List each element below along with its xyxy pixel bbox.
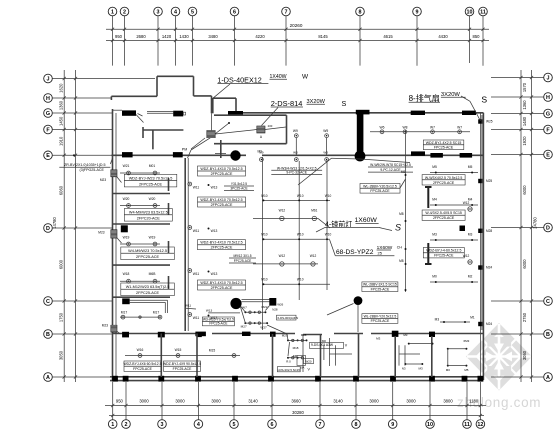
svg-text:2FPC20-ACE: 2FPC20-ACE [137, 217, 160, 221]
annotation 6-DS small [277, 315, 299, 320]
svg-text:W13: W13 [206, 309, 213, 313]
svg-text:W-W9/2W-W78 SC15+X2.5: W-W9/2W-W78 SC15+X2.5 [370, 163, 411, 167]
svg-text:11: 11 [480, 9, 486, 15]
svg-text:2FPC25-ACE: 2FPC25-ACE [139, 182, 162, 186]
svg-text:H: H [546, 95, 550, 101]
svg-text:7: 7 [285, 9, 288, 15]
thick black column wall [355, 113, 366, 162]
svg-text:2750: 2750 [522, 312, 527, 322]
left hall black dot lower [230, 298, 241, 309]
svg-text:M2: M2 [468, 275, 473, 279]
right wall outside wire [481, 115, 483, 330]
svg-text:J: J [47, 76, 50, 82]
svg-text:M24: M24 [486, 266, 492, 270]
top wall lamp bars [122, 110, 476, 117]
svg-text:10: 10 [427, 422, 433, 428]
watermark text zhulong.com [457, 395, 541, 410]
svg-text:D: D [546, 225, 550, 231]
svg-text:11: 11 [464, 422, 470, 428]
svg-text:2FPC25-ACE: 2FPC25-ACE [433, 181, 455, 185]
svg-text:24780: 24780 [533, 217, 538, 229]
corridor north wall [111, 154, 483, 156]
svg-text:M0: M0 [293, 354, 297, 358]
svg-text:M3: M3 [419, 367, 423, 371]
svg-text:6-DS-003(A)4W: 6-DS-003(A)4W [278, 316, 299, 320]
svg-text:N28: N28 [272, 307, 278, 311]
svg-text:W20: W20 [306, 359, 312, 363]
svg-text:W12: W12 [463, 201, 470, 205]
bottom grid bubbles 1-12 [108, 420, 484, 429]
svg-text:W13: W13 [211, 186, 218, 190]
top grid bubbles 1-11 [108, 7, 487, 16]
left room boxed labels [121, 174, 177, 295]
svg-text:4: 4 [174, 9, 177, 15]
svg-text:9: 9 [391, 422, 394, 428]
labels near right wall bottom [435, 316, 475, 324]
svg-text:WDZ-BYJ-4X10 70.5x12.5: WDZ-BYJ-4X10 70.5x12.5 [200, 198, 242, 202]
svg-text:3050: 3050 [522, 350, 527, 360]
left outside label [59, 158, 112, 172]
left grid bubbles J-A [44, 74, 53, 381]
hall node row 1 [261, 194, 331, 202]
hall lamp row W12 lower [253, 254, 318, 266]
hall node row 3 [261, 278, 330, 286]
svg-text:FPC25-ACE: FPC25-ACE [173, 367, 192, 371]
svg-text:W10: W10 [325, 194, 332, 198]
svg-text:E: E [546, 152, 550, 158]
small label M9-12 3X1.5 [229, 254, 256, 263]
svg-text:B: B [46, 332, 50, 338]
svg-text:M01: M01 [149, 164, 156, 168]
svg-text:W7: W7 [430, 126, 435, 130]
svg-text:W3: W3 [323, 150, 328, 154]
right grid lines [491, 78, 544, 378]
svg-text:1X60W: 1X60W [355, 217, 378, 224]
svg-text:M10: M10 [261, 233, 267, 237]
svg-text:4430: 4430 [438, 34, 448, 39]
top dimension lines [106, 28, 489, 42]
annotation I-DS bottom small [277, 365, 304, 372]
svg-text:10: 10 [467, 9, 473, 15]
svg-text:R.0: R.0 [286, 359, 291, 363]
svg-text:3660: 3660 [291, 399, 301, 404]
svg-text:M5: M5 [432, 165, 437, 169]
ceiling lamps W12 right rooms [463, 201, 472, 264]
svg-text:3: 3 [161, 422, 164, 428]
svg-text:W19: W19 [149, 235, 156, 239]
bottom outer wall [110, 377, 483, 381]
svg-text:J: J [547, 75, 550, 81]
bottom-left boxed labels [123, 361, 201, 371]
svg-text:1360: 1360 [59, 100, 64, 110]
bottom rooms labels left wing [293, 342, 348, 371]
left outer wall [113, 109, 117, 380]
svg-text:3000: 3000 [369, 399, 379, 404]
svg-text:FPC25-ACE: FPC25-ACE [434, 145, 454, 149]
distribution box PM [182, 131, 215, 152]
svg-text:(3)FPG25-ACE: (3)FPG25-ACE [80, 168, 105, 172]
svg-text:950: 950 [115, 34, 123, 39]
svg-text:WDZ-BYJ-4X10 70.5x12.5: WDZ-BYJ-4X10 70.5x12.5 [200, 281, 242, 285]
svg-text:3140: 3140 [248, 399, 258, 404]
corridor boxed labels [198, 166, 246, 290]
svg-text:7: 7 [319, 422, 322, 428]
top main wall [113, 110, 484, 113]
svg-text:2FPC25-ACE: 2FPC25-ACE [136, 255, 159, 259]
annotation 8-exhaust-fan 3X20W [409, 92, 481, 121]
svg-text:M28: M28 [301, 333, 307, 337]
black square on partition 4 [122, 298, 167, 313]
svg-text:W10: W10 [325, 233, 332, 237]
svg-text:5: 5 [233, 422, 236, 428]
svg-text:H: H [46, 96, 50, 102]
svg-text:W27: W27 [260, 325, 267, 329]
svg-text:N3: N3 [402, 367, 406, 371]
svg-text:8: 8 [359, 9, 362, 15]
toilet stall partitions [330, 338, 421, 366]
bottom dim numbers [116, 399, 479, 416]
svg-text:3: 3 [157, 9, 160, 15]
svg-text:M18: M18 [293, 346, 299, 350]
black square right of dot [269, 298, 276, 306]
svg-text:1360: 1360 [522, 100, 527, 110]
svg-text:3000: 3000 [406, 399, 416, 404]
svg-text:W12: W12 [463, 254, 470, 258]
svg-text:FPC25-ACE: FPC25-ACE [209, 322, 228, 326]
svg-text:850: 850 [473, 34, 481, 39]
wire vertical x405 hall [405, 130, 407, 292]
svg-text:9-PC-12-ACE: 9-PC-12-ACE [380, 168, 401, 172]
svg-text:3000: 3000 [175, 399, 185, 404]
svg-text:W25: W25 [486, 120, 493, 124]
black square on partition 2 [121, 225, 128, 232]
svg-text:W7: W7 [457, 126, 462, 130]
right dim numbers [522, 82, 538, 360]
svg-text:I-DS-3X2.5 SC15: I-DS-3X2.5 SC15 [278, 368, 301, 372]
svg-text:M23: M23 [98, 231, 104, 235]
switch chains room rows [267, 325, 313, 364]
svg-text:8: 8 [355, 422, 358, 428]
svg-text:WL-28BV-3X1.5 SC15: WL-28BV-3X1.5 SC15 [363, 283, 397, 287]
svg-text:W10: W10 [297, 233, 304, 237]
right rooms wire rows [430, 165, 478, 283]
svg-text:W16: W16 [137, 348, 144, 352]
svg-text:ZR-BV(2X1.0)1035+1(D.5: ZR-BV(2X1.0)1035+1(D.5 [64, 163, 105, 167]
svg-text:9-PC-32-ACE: 9-PC-32-ACE [286, 171, 307, 175]
svg-text:A: A [546, 375, 550, 381]
wall box M23 upper [100, 170, 122, 183]
wire vertical x327 [326, 160, 328, 290]
svg-text:6: 6 [233, 9, 236, 15]
svg-text:950: 950 [116, 399, 124, 404]
svg-text:WDZ-BYJ-4X10 70.5x12.5: WDZ-BYJ-4X10 70.5x12.5 [200, 241, 242, 245]
svg-text:2FPC25-ACE: 2FPC25-ACE [211, 286, 233, 290]
M17 lamp row [120, 311, 162, 320]
svg-text:W-W3X4X2.5 70.5x12.5: W-W3X4X2.5 70.5x12.5 [425, 176, 463, 180]
watermark zhulong logo [466, 323, 532, 391]
svg-text:WDZ-BYJ-W23 70.5x12.5: WDZ-BYJ-W23 70.5x12.5 [129, 176, 173, 180]
lamp W9 W8 left of hall [259, 129, 328, 162]
svg-text:B: B [546, 332, 550, 338]
svg-text:3000: 3000 [139, 399, 149, 404]
svg-text:25: 25 [378, 251, 383, 256]
svg-text:M8: M8 [399, 212, 404, 216]
annotation 2-DS-814 3X20W [262, 99, 326, 126]
svg-text:CH: CH [397, 246, 403, 250]
mid wall lamp bars [122, 332, 250, 338]
wire corridor lamps W11 [188, 182, 218, 320]
svg-text:W8: W8 [403, 126, 408, 130]
right wall boxes M25 M28 M24 [478, 119, 493, 326]
svg-text:M28: M28 [486, 229, 492, 233]
svg-text:4220: 4220 [255, 34, 265, 39]
left room partitions [113, 194, 170, 298]
svg-text:W11: W11 [185, 304, 191, 308]
svg-text:200: 200 [268, 124, 273, 128]
switch label S hall [395, 223, 401, 233]
svg-text:2: 2 [123, 9, 126, 15]
svg-text:WDZ-BYJ-4X9 90.5x12.5: WDZ-BYJ-4X9 90.5x12.5 [163, 362, 201, 366]
label CH [397, 246, 403, 250]
corridor east wall [185, 158, 188, 331]
switch label S right [481, 94, 487, 104]
svg-text:M3: M3 [432, 233, 437, 237]
labels on hall riser wire [399, 170, 405, 263]
svg-text:WDZ-BYJ-4X2.5 SC15: WDZ-BYJ-4X2.5 SC15 [426, 141, 462, 145]
svg-text:M9/12 3X1.5: M9/12 3X1.5 [233, 254, 251, 258]
top grid stems [113, 16, 484, 66]
wire pair dot to square [242, 300, 270, 302]
hall top label W-W3-4 [271, 166, 322, 174]
svg-text:W26: W26 [277, 303, 283, 307]
svg-text:WDZ-BYJ-4-60.5x12.5: WDZ-BYJ-4-60.5x12.5 [426, 249, 461, 253]
svg-text:3480: 3480 [208, 34, 218, 39]
svg-text:G: G [546, 111, 550, 117]
svg-text:W13: W13 [211, 229, 218, 233]
right rooms boxed labels [422, 175, 465, 258]
svg-text:M23: M23 [100, 178, 106, 182]
svg-text:D: D [46, 226, 50, 232]
svg-text:5: 5 [191, 9, 194, 15]
wire A box to fan row [265, 127, 286, 130]
svg-text:M1: M1 [470, 316, 475, 320]
svg-text:68-DS-YPZ2: 68-DS-YPZ2 [336, 249, 374, 256]
svg-text:1: 1 [111, 9, 114, 15]
svg-text:C: C [546, 299, 550, 305]
right dimension lines [519, 70, 533, 382]
svg-text:M3: M3 [376, 337, 380, 341]
top overall dim 20260 [290, 23, 303, 28]
switch boxed label [202, 317, 234, 326]
svg-text:C: C [46, 299, 50, 305]
left dim numbers [52, 83, 64, 360]
svg-text:W10: W10 [297, 278, 304, 282]
top dim numbers [115, 34, 480, 39]
svg-text:3140: 3140 [333, 399, 343, 404]
bottom dimension lines [105, 404, 486, 417]
svg-text:W10: W10 [297, 194, 304, 198]
wire from PM to A box [212, 113, 257, 134]
svg-text:W18: W18 [123, 272, 130, 276]
svg-text:1620: 1620 [59, 83, 64, 93]
right outer wall [481, 113, 484, 380]
svg-text:S: S [342, 99, 347, 108]
svg-text:WL-28BV-Y20.5x12.5: WL-28BV-Y20.5x12.5 [364, 315, 397, 319]
vestibule side room walls [214, 115, 287, 144]
svg-text:M61: M61 [311, 209, 317, 213]
svg-text:W9: W9 [323, 129, 328, 133]
switch S1 diagonal [136, 114, 144, 123]
svg-text:8-排气扇: 8-排气扇 [409, 93, 440, 103]
svg-text:1910: 1910 [59, 136, 64, 146]
svg-text:W21: W21 [123, 164, 130, 168]
svg-text:A: A [46, 375, 50, 381]
svg-text:FPC25-ACE: FPC25-ACE [371, 319, 390, 323]
svg-text:20260: 20260 [290, 23, 303, 28]
svg-text:WL-28BV-Y20.5x12.5: WL-28BV-Y20.5x12.5 [363, 184, 397, 188]
black box hall right [460, 226, 466, 232]
wire vertical x299 [298, 161, 300, 300]
wall box M23 third [102, 324, 121, 335]
svg-text:M22: M22 [261, 305, 267, 309]
left rooms door jamb wall [168, 178, 170, 289]
mid main wall [113, 334, 484, 335]
svg-text:W12: W12 [279, 209, 286, 213]
svg-text:2FPC25-ACE: 2FPC25-ACE [211, 246, 233, 250]
svg-text:1570: 1570 [522, 82, 527, 92]
svg-text:W19: W19 [123, 235, 130, 239]
svg-text:6060: 6060 [59, 185, 64, 195]
svg-text:Y31.5x12.5: Y31.5x12.5 [231, 182, 247, 186]
svg-text:M25: M25 [486, 179, 492, 183]
svg-text:W1-M12/W23 63.5x(T)2.5: W1-M12/W23 63.5x(T)2.5 [126, 285, 170, 289]
svg-text:W12: W12 [279, 254, 286, 258]
svg-text:6000: 6000 [59, 259, 64, 269]
svg-text:W11: W11 [193, 229, 200, 233]
svg-text:M6B: M6B [149, 272, 157, 276]
svg-text:6M3: 6M3 [463, 339, 469, 343]
small room walls bottom-left wing [302, 335, 304, 373]
svg-text:WDZ-BYJ-4X10 70.5x12.5: WDZ-BYJ-4X10 70.5x12.5 [200, 167, 242, 171]
svg-text:W13: W13 [211, 272, 218, 276]
svg-text:M27: M27 [241, 325, 247, 329]
svg-text:1180: 1180 [469, 399, 479, 404]
small label ZR-BV top right [368, 163, 413, 172]
floor box small rect [293, 346, 306, 365]
svg-text:1420: 1420 [162, 34, 172, 39]
svg-text:2680: 2680 [136, 34, 146, 39]
svg-text:2: 2 [125, 422, 128, 428]
switch label S mid [342, 99, 347, 108]
svg-text:6000: 6000 [522, 259, 527, 269]
svg-text:1750: 1750 [59, 312, 64, 322]
bottom grid stems [113, 382, 481, 420]
svg-text:6000: 6000 [522, 185, 527, 195]
svg-text:M3: M3 [435, 318, 440, 322]
svg-text:W6: W6 [380, 126, 385, 130]
svg-text:W15: W15 [175, 348, 182, 352]
svg-text:E: E [46, 153, 50, 159]
corridor wall lamp bars [122, 151, 472, 157]
svg-text:PM: PM [182, 148, 187, 152]
svg-text:1480: 1480 [522, 116, 527, 126]
annotation 68-DS-YPZ2 1X60W [330, 240, 395, 256]
bottom-left room row W16 W15 [125, 348, 240, 357]
svg-text:M10: M10 [261, 194, 267, 198]
mid wall black squares [196, 331, 435, 337]
svg-text:FPC25-ACE: FPC25-ACE [371, 287, 390, 291]
svg-text:WDZ-BYJ-4X6 60.5x12.5: WDZ-BYJ-4X6 60.5x12.5 [123, 362, 161, 366]
svg-text:M3: M3 [468, 233, 473, 237]
bottom rooms partition walls [161, 334, 432, 378]
svg-text:9: 9 [416, 9, 419, 15]
svg-text:6: 6 [271, 422, 274, 428]
wire PM down to corridor [188, 138, 211, 158]
svg-text:W3: W3 [293, 150, 298, 154]
svg-text:M10: M10 [261, 278, 267, 282]
hall lower boxed label [360, 179, 406, 193]
left grid lines [52, 79, 155, 378]
svg-text:4615: 4615 [383, 34, 393, 39]
column blob F1 [230, 150, 240, 160]
wall box M23 lower [98, 230, 121, 243]
left dimension lines [63, 70, 78, 382]
svg-text:W4-M9/W23 63.5x12.5: W4-M9/W23 63.5x12.5 [129, 211, 168, 215]
label M0 corridor [257, 150, 262, 154]
svg-text:M9: M9 [259, 150, 264, 154]
bottom rooms wires [322, 333, 470, 372]
right top boxed label [423, 140, 464, 150]
svg-text:2FPC25-ACE: 2FPC25-ACE [211, 203, 233, 207]
svg-text:W9: W9 [293, 129, 298, 133]
svg-text:M3: M3 [403, 333, 407, 337]
left room lamp rows [120, 164, 160, 283]
svg-text:1450: 1450 [59, 116, 64, 126]
diagonal wires from column [298, 158, 410, 185]
svg-text:1: 1 [111, 422, 114, 428]
hall node row 2 [261, 233, 331, 241]
bottom wall column squares [112, 376, 483, 382]
svg-text:W11: W11 [193, 316, 200, 320]
outer wall top-left stepped outline [111, 76, 211, 113]
svg-text:2FPC25-ACE: 2FPC25-ACE [211, 172, 233, 176]
svg-text:30280: 30280 [292, 410, 304, 415]
svg-text:W11: W11 [193, 272, 200, 276]
svg-text:W12: W12 [310, 254, 317, 258]
wall stub near column [215, 140, 226, 158]
distribution box A [257, 124, 273, 139]
svg-text:M15: M15 [209, 349, 216, 353]
svg-text:M17: M17 [121, 311, 128, 315]
svg-text:FPC25-ACE: FPC25-ACE [234, 259, 252, 263]
svg-text:M5: M5 [468, 165, 473, 169]
svg-text:1920: 1920 [522, 136, 527, 146]
svg-text:3000: 3000 [211, 399, 221, 404]
svg-text:FPC25-ACE: FPC25-ACE [370, 189, 390, 193]
svg-text:M0: M0 [446, 368, 450, 372]
svg-text:S: S [481, 94, 487, 104]
svg-text:M17: M17 [153, 311, 160, 315]
svg-text:9-DS-003 A3W: 9-DS-003 A3W [311, 343, 334, 347]
annotation 4-mirror-lamp 1X60W [316, 217, 392, 232]
svg-text:FPC25-ACE: FPC25-ACE [133, 367, 152, 371]
svg-text:M0: M0 [432, 275, 437, 279]
svg-text:M8: M8 [399, 259, 404, 263]
svg-text:1430: 1430 [179, 34, 189, 39]
fan wire row top [370, 126, 470, 134]
svg-text:W-4/3X2.5-4X5.5 SC15: W-4/3X2.5-4X5.5 SC15 [425, 211, 462, 215]
wires hall dot to rows [327, 304, 358, 333]
